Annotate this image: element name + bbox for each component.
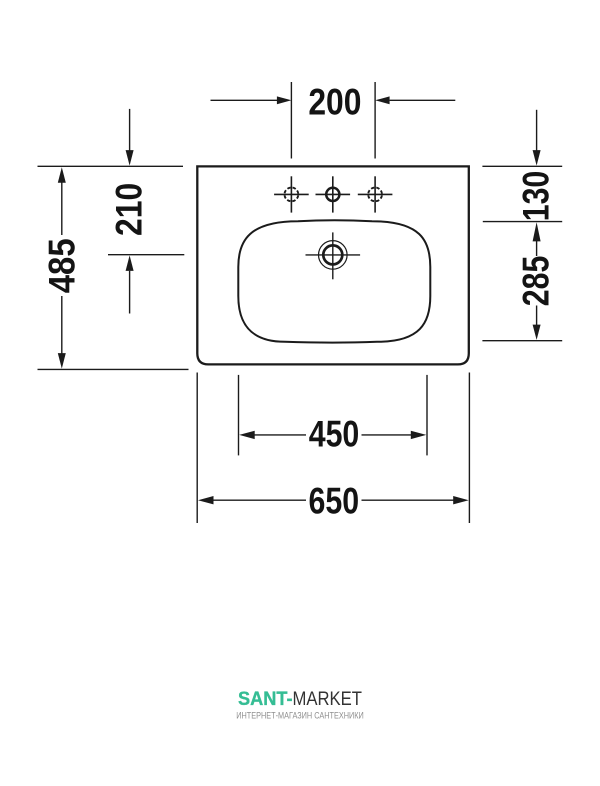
svg-text:450: 450 xyxy=(309,414,360,456)
dimension 210 (left inner) xyxy=(108,109,184,314)
svg-text:285: 285 xyxy=(515,256,557,307)
dimension 130 (right upper) xyxy=(482,110,562,222)
svg-text:200: 200 xyxy=(308,82,361,123)
faucet hole left xyxy=(274,82,309,213)
svg-text:ИНТЕРНЕТ-МАГАЗИН САНТЕХНИКИ: ИНТЕРНЕТ-МАГАЗИН САНТЕХНИКИ xyxy=(236,711,364,722)
dimension 200 (top) xyxy=(211,99,456,101)
svg-text:SANT-: SANT- xyxy=(238,689,293,710)
svg-text:485: 485 xyxy=(42,238,83,293)
faucet hole right xyxy=(358,82,393,213)
sink outline xyxy=(197,166,469,364)
dimension 485 (left) xyxy=(38,166,189,369)
dimension 285 (right lower) xyxy=(482,241,562,341)
svg-text:210: 210 xyxy=(109,183,150,236)
dimension 650 (bottom outer) xyxy=(197,373,469,524)
faucet hole middle xyxy=(316,176,351,212)
dimension 450 (bottom inner) xyxy=(239,375,428,456)
svg-text:130: 130 xyxy=(515,171,557,222)
basin xyxy=(238,220,430,342)
drain xyxy=(306,232,361,279)
svg-text:650: 650 xyxy=(308,481,359,523)
svg-text:MARKET: MARKET xyxy=(293,689,363,710)
